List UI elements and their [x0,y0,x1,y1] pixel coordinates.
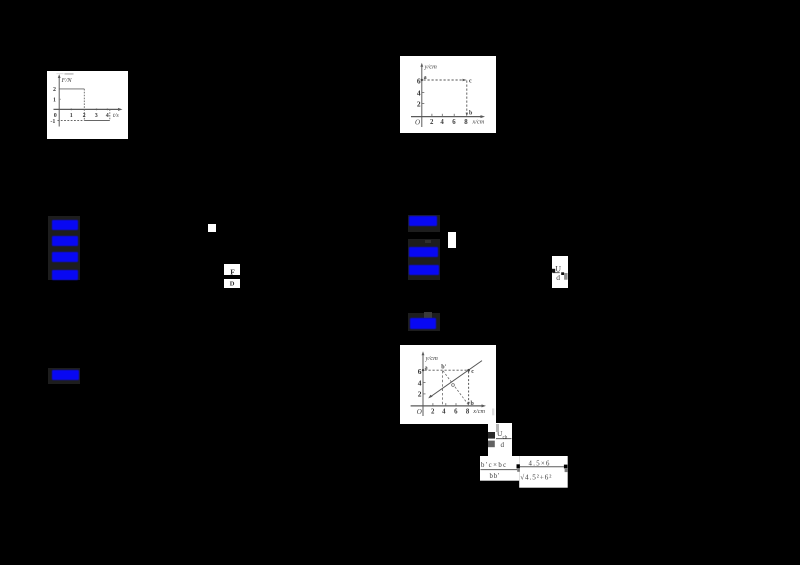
svg-text:2: 2 [430,119,434,126]
svg-text:D: D [230,280,235,287]
svg-text:O: O [415,119,420,127]
blue answer line L3 [52,252,78,263]
svg-text:t/s: t/s [113,113,119,119]
svg-text:b′c×bc: b′c×bc [481,462,508,469]
left answer highlight group (4 blue lines) [48,216,80,280]
faint header smudge [57,73,64,74]
svg-text:F/N: F/N [61,77,73,84]
svg-text:cb: cb [503,436,508,441]
y-axis [421,65,423,127]
svg-text:6: 6 [417,76,421,85]
graph G2: y-x plot with points a,c,b (top-right) [400,56,496,133]
graph G3: y-x plot with diagonal and b' (middle-right) [400,345,496,424]
svg-text:F: F [230,267,235,276]
left single blue highlight [48,368,80,384]
svg-text:d: d [501,442,505,450]
white formula fragment (small square) [208,224,216,232]
svg-text:x/cm: x/cm [472,119,485,126]
y-axis [422,354,424,417]
dashed drop at t=2 [83,89,85,121]
svg-text:2: 2 [53,87,56,93]
svg-text:b′: b′ [441,365,446,371]
svg-text:y/cm: y/cm [424,64,438,71]
dashed a-c [425,369,469,371]
point a [421,79,423,81]
svg-text:2: 2 [431,408,435,415]
svg-text:2: 2 [83,113,86,119]
svg-text:c: c [469,79,472,85]
point c [463,79,467,81]
x-axis [411,116,483,118]
svg-text:0: 0 [54,113,57,119]
dashed b'-down [442,371,444,406]
svg-text:bb′: bb′ [490,473,501,480]
fraction U_cb/d formula image [488,423,512,459]
F=-1 solid part [84,120,110,122]
svg-text:O: O [417,408,422,416]
dashed diagonal b'-b [443,371,468,405]
svg-text:c: c [471,369,474,375]
faint stripe [492,409,494,416]
x ticks [432,403,434,406]
svg-text:d: d [556,273,560,282]
blue answer line L2 [52,236,78,246]
faint stripe right of U_cb [496,424,499,432]
svg-text:8: 8 [464,119,468,126]
svg-text:4: 4 [418,378,422,387]
x-axis [411,405,484,407]
svg-text:-1: -1 [50,119,55,125]
fraction U/d formula image [552,256,568,288]
svg-text:6: 6 [418,367,422,376]
svg-text:1: 1 [53,97,56,103]
svg-text:b: b [469,110,473,116]
blue answer line L4 [52,270,78,280]
x-axis [54,108,121,110]
graph G1: F-t step plot (top-left) [47,71,128,139]
blue answer line R1 [409,216,437,225]
svg-text:4: 4 [417,89,421,98]
y-axis [58,77,60,127]
x ticks [70,109,72,111]
svg-text:6: 6 [454,408,458,415]
point c [467,369,470,372]
svg-text:4: 4 [440,119,444,126]
svg-text:2: 2 [418,390,422,399]
right answer highlight group [408,215,440,233]
x ticks [431,114,433,117]
svg-text:y/cm: y/cm [425,355,439,362]
blue answer line R4 [410,318,436,329]
svg-text:√4.5²+6²: √4.5²+6² [520,473,552,481]
svg-text:2: 2 [417,100,421,109]
blue answer line R3 [409,265,439,275]
blue answer line L1 [52,220,78,230]
svg-text:4.5×6: 4.5×6 [529,460,551,467]
fraction F/D formula image [224,264,240,275]
blue answer line R2 [409,247,438,257]
svg-text:4: 4 [442,408,446,415]
big formula image: b'c x bc / bb' = 4.5x6 / sqrt(4.5^2+6^2) [480,456,568,488]
dashed vertical at t=4 [109,109,111,120]
svg-text:3: 3 [95,113,98,119]
svg-text:x/cm: x/cm [472,408,485,415]
main diagonal line [430,361,482,398]
dashed a-c [424,79,466,81]
step at F=2 [59,88,84,90]
svg-text:4: 4 [106,113,109,119]
lower-right single blue highlight [408,313,440,331]
small circle on diagonal [452,384,455,387]
dashed c-b [468,372,470,404]
y ticks + labels [423,382,426,384]
svg-text:8: 8 [466,408,470,415]
svg-text:1: 1 [70,113,73,119]
y ticks + labels [422,91,425,93]
white fragment beside R1 [448,232,456,248]
dashed c-b [466,81,468,116]
svg-text:6: 6 [452,119,456,126]
blue answer line L5 [52,370,79,380]
F=-1 segment dashed part [58,120,85,122]
